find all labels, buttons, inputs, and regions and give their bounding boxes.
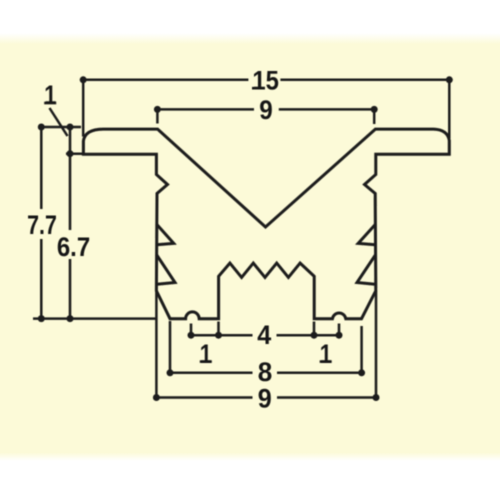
dim 6.7 line xyxy=(66,127,83,319)
leader line for 1 xyxy=(50,108,68,136)
dim 7.7 line xyxy=(33,127,156,319)
dim 15 line xyxy=(83,80,449,139)
svg-text:6.7: 6.7 xyxy=(57,232,90,262)
dim 8 line xyxy=(170,321,362,373)
dim 1-4-1 bottom line xyxy=(191,322,339,336)
svg-text:4: 4 xyxy=(257,320,271,350)
dimension end dots xyxy=(38,76,453,401)
profile outline xyxy=(83,129,449,319)
svg-text:8: 8 xyxy=(258,357,273,387)
svg-text:1: 1 xyxy=(44,80,56,110)
svg-text:1: 1 xyxy=(320,339,332,369)
svg-text:15: 15 xyxy=(252,65,279,95)
right wall sawtooth B xyxy=(357,255,376,285)
svg-text:9: 9 xyxy=(259,95,273,125)
svg-text:7.7: 7.7 xyxy=(27,210,57,240)
svg-text:1: 1 xyxy=(200,339,212,369)
dim 9 bottom line xyxy=(156,291,376,398)
svg-text:9: 9 xyxy=(258,384,272,414)
right wall sawtooth A xyxy=(358,224,376,245)
left wall sawtooth B xyxy=(156,255,175,285)
left wall sawtooth A xyxy=(156,224,173,245)
dim 9 top line xyxy=(157,109,374,124)
